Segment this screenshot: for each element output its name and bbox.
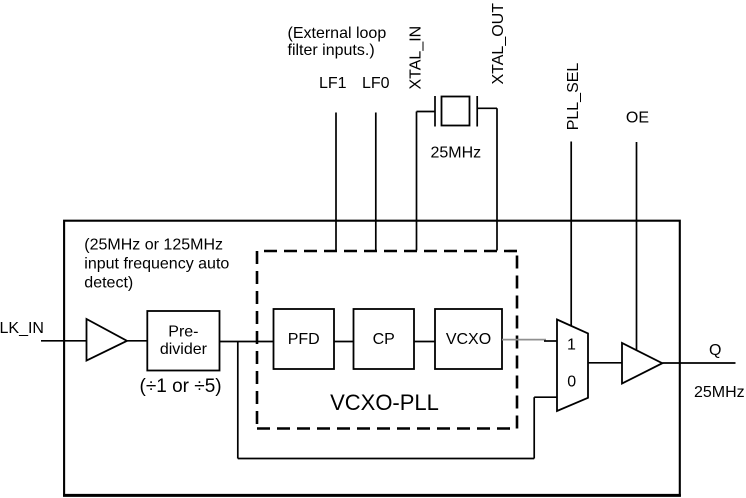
wire LF1 vertical [335, 113, 337, 251]
svg-text:PFD: PFD [288, 331, 320, 348]
wire buffer to pre-divider [127, 340, 147, 342]
svg-text:CP: CP [373, 331, 395, 348]
block VCXO [435, 309, 502, 369]
svg-text:input frequency auto: input frequency auto [84, 255, 229, 272]
block PFD [274, 309, 335, 369]
svg-text:(÷1 or ÷5): (÷1 or ÷5) [140, 376, 222, 397]
svg-text:LK_IN: LK_IN [0, 320, 44, 337]
wire mux input 0 [534, 396, 557, 398]
crystal Y1 right plate [476, 96, 478, 127]
output buffer amplifier [622, 343, 662, 384]
wire Q output [662, 362, 735, 364]
svg-text:25MHz: 25MHz [431, 145, 482, 162]
wire bypass tap vertical [237, 342, 239, 459]
crystal Y1 body [442, 97, 470, 126]
svg-text:25MHz: 25MHz [694, 384, 745, 401]
dashed box VCXO-PLL [257, 251, 517, 429]
wire OE vertical [636, 142, 638, 352]
wire XTAL_OUT vertical [496, 108, 498, 250]
wire CLK_IN input [41, 340, 87, 342]
wire XTAL_IN vertical [416, 112, 418, 251]
wire LF0 vertical [375, 113, 377, 251]
svg-text:XTAL_OUT: XTAL_OUT [490, 3, 507, 85]
wire XTAL_OUT stub [477, 107, 497, 109]
svg-text:OE: OE [626, 109, 649, 126]
svg-text:LF0: LF0 [362, 75, 390, 92]
wire CP to VCXO [414, 341, 435, 343]
svg-text:1: 1 [567, 336, 576, 353]
wire bypass riser [533, 397, 535, 458]
svg-text:VCXO: VCXO [446, 331, 491, 348]
wire PLL_SEL vertical [570, 142, 572, 327]
label: (External loop filter inputs.) [288, 25, 387, 59]
wire PFD to CP [334, 341, 354, 343]
note: (25MHz or 125MHz input frequency auto detect) [84, 236, 229, 291]
block CP [354, 309, 415, 369]
svg-text:LF1: LF1 [319, 75, 347, 92]
svg-text:XTAL_IN: XTAL_IN [407, 26, 424, 90]
input buffer amplifier [87, 319, 128, 361]
svg-text:(External loop: (External loop [288, 25, 387, 42]
svg-text:0: 0 [567, 374, 576, 391]
wire mux to output buffer [588, 362, 622, 364]
wire XTAL_IN stub [417, 111, 436, 113]
svg-text:(25MHz or 125MHz: (25MHz or 125MHz [84, 236, 223, 253]
svg-text:PLL_SEL: PLL_SEL [565, 63, 582, 131]
chip outline bottom emphasis [63, 494, 681, 497]
wire VCXO to mux (gray) [502, 339, 546, 341]
chip outline box [64, 221, 680, 496]
svg-text:Pre-: Pre- [168, 323, 198, 340]
svg-text:filter inputs.): filter inputs.) [288, 42, 375, 59]
wire bypass bottom horizontal [238, 458, 534, 460]
mux selector [557, 320, 588, 412]
svg-text:divider: divider [160, 341, 208, 358]
svg-text:VCXO-PLL: VCXO-PLL [330, 390, 439, 415]
svg-text:Q: Q [709, 342, 721, 359]
svg-text:detect): detect) [84, 274, 133, 291]
block Pre-divider [147, 311, 219, 371]
crystal Y1 left plate [434, 96, 436, 127]
wire mux input 1 stub [544, 340, 557, 342]
wire pre-divider to PFD [220, 341, 274, 343]
